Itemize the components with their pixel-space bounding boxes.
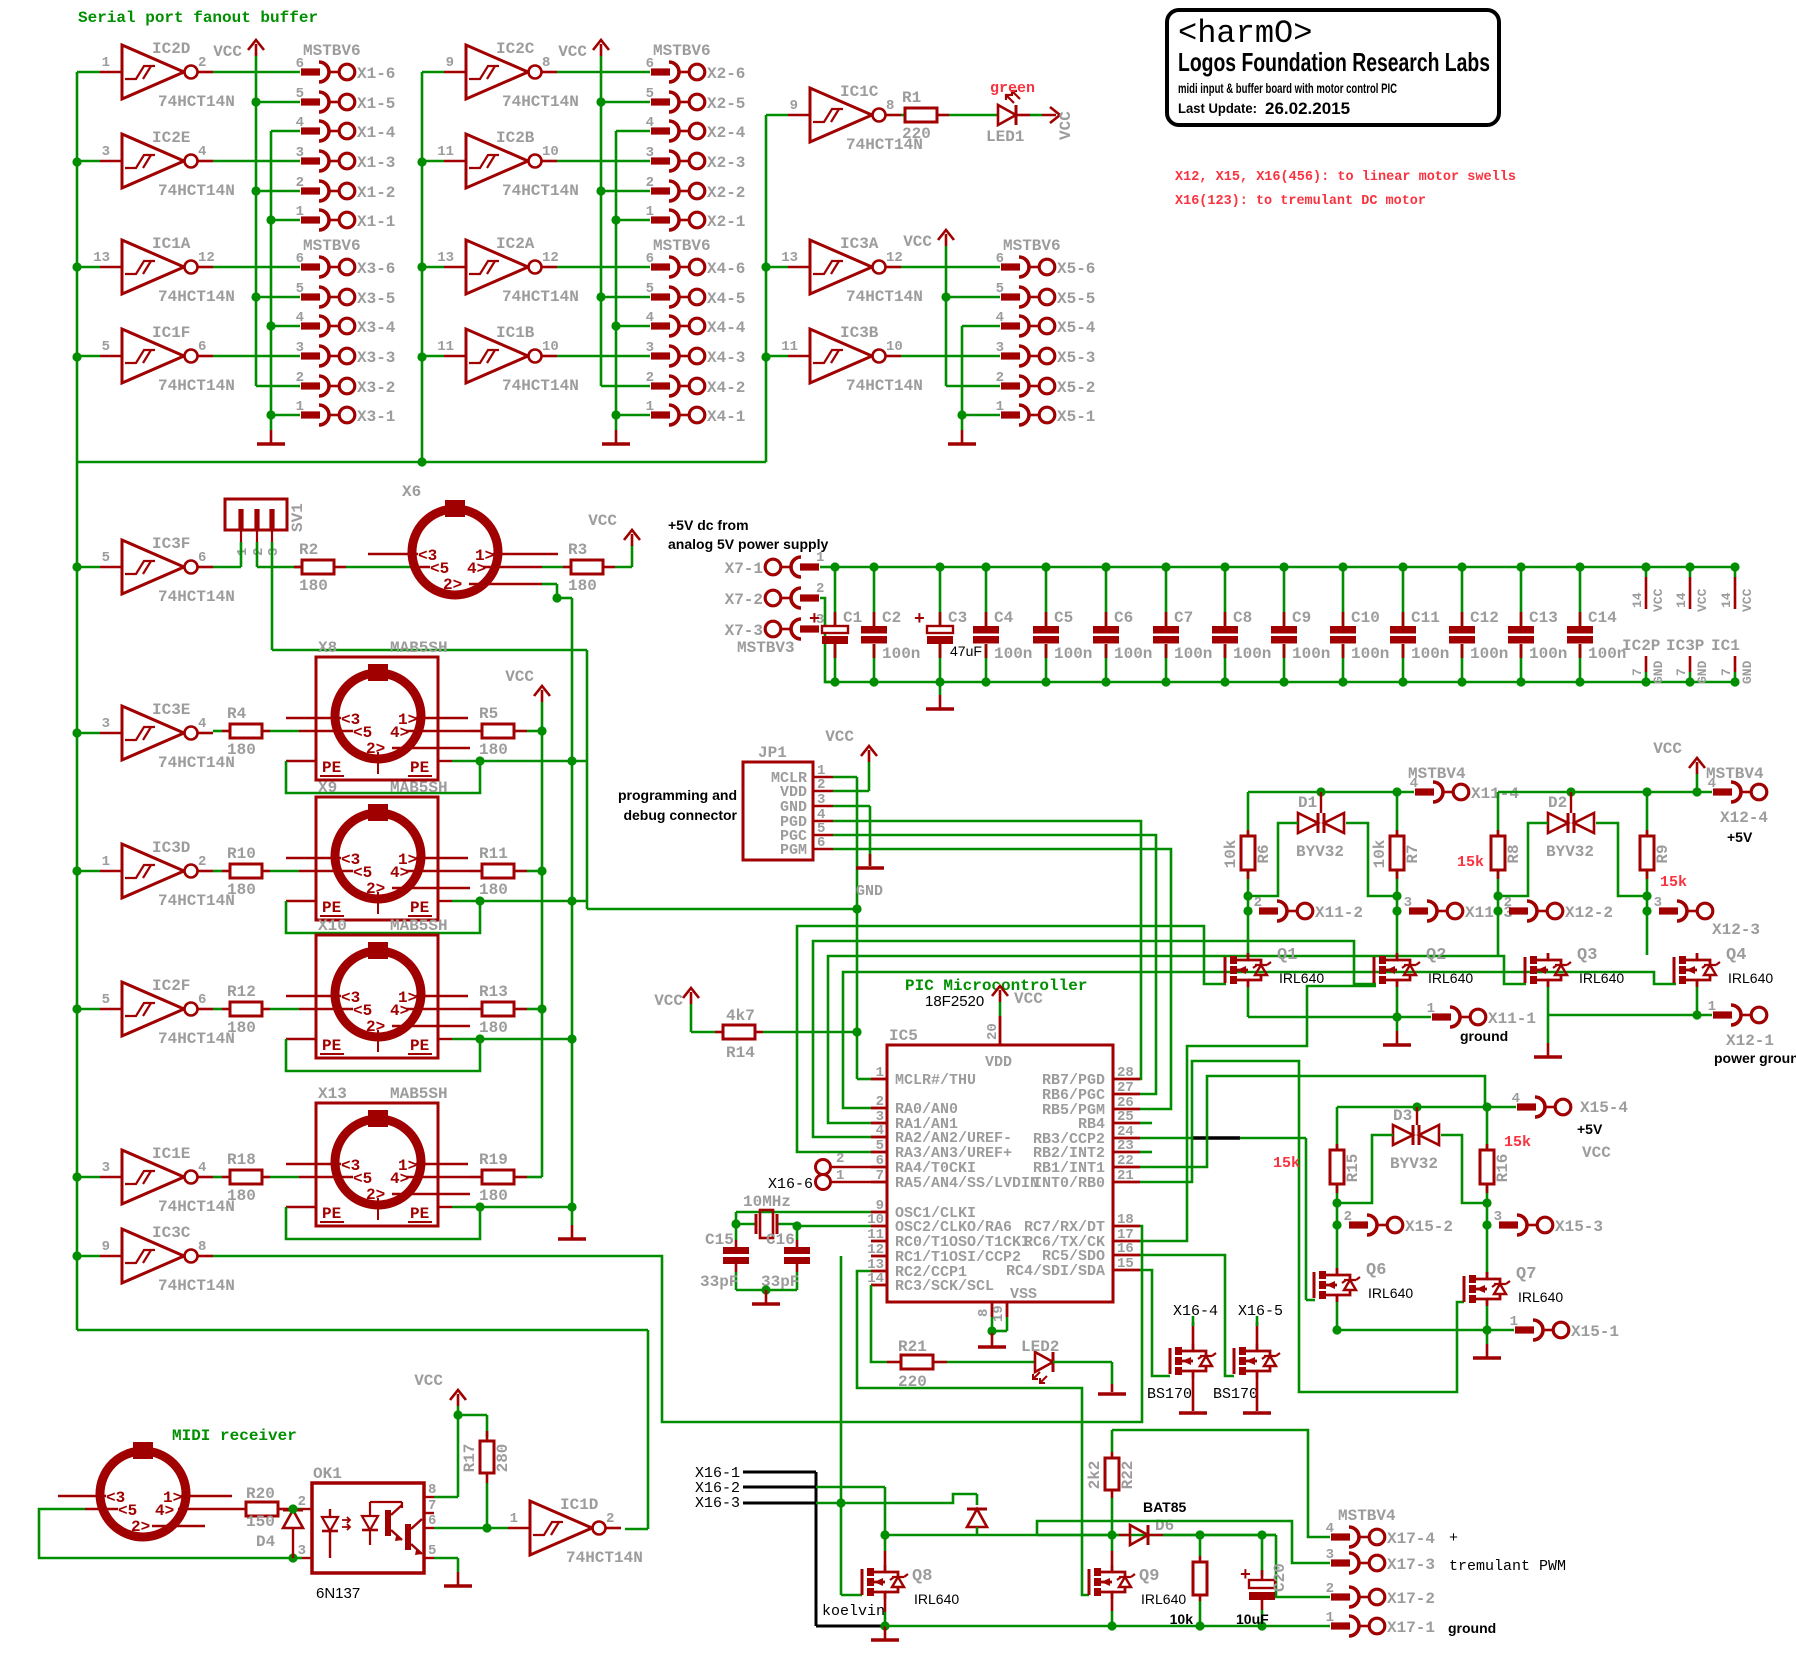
svg-text:IC1E: IC1E — [152, 1145, 190, 1163]
wire OSC — [731, 1212, 871, 1231]
wire PE loop X13 — [286, 1202, 572, 1239]
inverter IC3A — [766, 235, 923, 306]
resistor R1 220 — [902, 89, 949, 143]
svg-text:BAT85: BAT85 — [1143, 1499, 1187, 1515]
inverter IC3F — [77, 535, 235, 606]
svg-text:R20: R20 — [246, 1485, 275, 1503]
svg-text:10k: 10k — [1222, 839, 1240, 868]
transistor Q7 IRL640 — [1464, 1265, 1563, 1306]
resistor R13 180 — [470, 983, 542, 1037]
svg-text:C7: C7 — [1174, 609, 1193, 627]
svg-text:74HCT14N: 74HCT14N — [158, 93, 235, 111]
svg-text:R21: R21 — [898, 1338, 927, 1356]
resistor R5 180 — [470, 705, 542, 759]
svg-text:BS170: BS170 — [1147, 1386, 1192, 1403]
svg-text:180: 180 — [227, 741, 256, 759]
svg-text:1: 1 — [646, 204, 654, 220]
ground PE chain — [558, 1225, 586, 1239]
svg-text:6: 6 — [817, 835, 825, 851]
svg-text:100n: 100n — [1174, 645, 1212, 663]
wire RB2 stub — [1140, 1151, 1152, 1154]
capacitor C8 100n — [1212, 562, 1271, 686]
PIC microcontroller IC5 18F2520 — [867, 977, 1140, 1322]
svg-text:X5-2: X5-2 — [1057, 379, 1095, 397]
svg-text:+: + — [914, 610, 925, 630]
svg-text:power ground: power ground — [1714, 1050, 1796, 1066]
diode D1 BYV32 — [1296, 792, 1344, 861]
svg-text:14: 14 — [867, 1271, 884, 1287]
svg-text:7: 7 — [1630, 668, 1645, 676]
svg-text:R15: R15 — [1344, 1154, 1362, 1183]
svg-text:IC2F: IC2F — [152, 977, 190, 995]
svg-text:7: 7 — [1674, 668, 1689, 676]
svg-text:SV1: SV1 — [289, 503, 307, 532]
svg-text:1: 1 — [296, 204, 304, 220]
svg-text:PE: PE — [410, 759, 429, 777]
resistor R6 10k — [1222, 836, 1273, 870]
svg-text:2>: 2> — [366, 1018, 385, 1036]
svg-text:33pF: 33pF — [700, 1273, 738, 1291]
svg-text:6: 6 — [876, 1153, 884, 1169]
svg-text:14: 14 — [1719, 592, 1734, 608]
svg-text:X12-4: X12-4 — [1720, 809, 1768, 827]
wire X12 +5V rail — [1498, 787, 1712, 796]
svg-text:X11-1: X11-1 — [1488, 1010, 1536, 1028]
svg-text:3: 3 — [102, 716, 110, 732]
svg-text:74HCT14N: 74HCT14N — [502, 93, 579, 111]
svg-text:1: 1 — [235, 548, 251, 556]
wire RB3/CCP2 to Q6 gate — [1140, 1138, 1315, 1300]
svg-text:VCC: VCC — [558, 43, 587, 61]
svg-text:74HCT14N: 74HCT14N — [846, 288, 923, 306]
svg-text:D4: D4 — [256, 1533, 276, 1551]
transistor Q4 IRL640 — [1674, 946, 1773, 987]
svg-text:X4-2: X4-2 — [707, 379, 745, 397]
svg-text:IC3P: IC3P — [1666, 637, 1704, 655]
svg-text:6: 6 — [646, 56, 654, 72]
svg-text:IC1D: IC1D — [560, 1496, 598, 1514]
svg-text:GND: GND — [1740, 660, 1755, 684]
svg-text:IRL640: IRL640 — [1728, 970, 1773, 986]
svg-text:X4-4: X4-4 — [707, 319, 746, 337]
svg-text:14: 14 — [1674, 592, 1689, 608]
svg-text:2: 2 — [836, 1151, 844, 1167]
svg-text:10k: 10k — [1371, 839, 1389, 868]
wire INT0/RB0 to Q7 gate — [1140, 1061, 1464, 1392]
svg-text:2: 2 — [1504, 895, 1512, 911]
svg-text:X15-3: X15-3 — [1555, 1218, 1603, 1236]
svg-text:180: 180 — [227, 881, 256, 899]
svg-text:C13: C13 — [1529, 609, 1558, 627]
capacitor C1 — [809, 562, 862, 686]
inverter IC2C — [422, 40, 579, 111]
svg-text:6: 6 — [296, 251, 304, 267]
svg-text:X5-3: X5-3 — [1057, 349, 1095, 367]
svg-text:green: green — [990, 80, 1035, 97]
wire LED2 to ground — [1053, 1362, 1126, 1394]
svg-text:3: 3 — [817, 792, 825, 808]
svg-text:C11: C11 — [1411, 609, 1440, 627]
svg-text:15k: 15k — [1504, 1134, 1531, 1151]
svg-text:R6: R6 — [1255, 844, 1273, 863]
svg-text:74HCT14N: 74HCT14N — [158, 377, 235, 395]
svg-text:X2-2: X2-2 — [707, 184, 745, 202]
svg-text:100n: 100n — [1292, 645, 1330, 663]
svg-text:X3-2: X3-2 — [357, 379, 395, 397]
svg-text:MAB5SH: MAB5SH — [390, 1085, 448, 1103]
ground at PIC VSS — [978, 1317, 1007, 1347]
capacitor C10 100n — [1330, 562, 1389, 686]
wire RB4 stub — [1140, 1122, 1152, 1125]
svg-text:74HCT14N: 74HCT14N — [502, 182, 579, 200]
svg-text:100n: 100n — [1588, 645, 1626, 663]
LED LED1 — [986, 91, 1030, 146]
wire PE loop X10 — [286, 1034, 572, 1071]
svg-text:MSTBV4: MSTBV4 — [1408, 765, 1466, 783]
svg-text:4>: 4> — [390, 724, 409, 742]
svg-text:74HCT14N: 74HCT14N — [158, 588, 235, 606]
svg-text:4: 4 — [876, 1123, 884, 1139]
svg-text:22: 22 — [1117, 1153, 1134, 1169]
svg-text:180: 180 — [479, 741, 508, 759]
wire PE chain vertical — [567, 598, 576, 1225]
svg-text:IC1B: IC1B — [496, 324, 535, 342]
connector X1 (MSTBV6) — [213, 42, 396, 231]
svg-text:3: 3 — [1404, 895, 1412, 911]
wire X7-1 to top rail — [820, 566, 835, 569]
svg-text:IC3B: IC3B — [840, 324, 879, 342]
capacitor C7 100n — [1153, 562, 1212, 686]
wire IC1C out — [901, 114, 905, 117]
svg-text:1: 1 — [816, 550, 824, 566]
svg-text:X15-4: X15-4 — [1580, 1099, 1628, 1117]
svg-text:X5-6: X5-6 — [1057, 260, 1095, 278]
svg-text:X5-5: X5-5 — [1057, 290, 1095, 308]
wire MCLR net vertical x587 — [587, 650, 857, 909]
svg-text:4: 4 — [646, 115, 654, 131]
connector pin X15-2 — [1344, 1209, 1453, 1236]
inverter IC2D — [77, 40, 235, 111]
capacitor C6 100n — [1093, 562, 1152, 686]
DIN connector X6 — [368, 483, 558, 595]
ground at Q2 — [1383, 1017, 1411, 1045]
resistor R4 180 — [213, 705, 299, 759]
wire JP1 MCLR — [833, 776, 857, 779]
svg-text:4>: 4> — [390, 1170, 409, 1188]
svg-text:28: 28 — [1117, 1065, 1134, 1081]
VCC at X12 — [1653, 740, 1705, 792]
connector pin X12-1 — [1708, 999, 1796, 1066]
svg-text:4k7: 4k7 — [726, 1007, 755, 1025]
svg-text:6: 6 — [198, 550, 206, 566]
VCC at LED1 — [1030, 107, 1075, 140]
svg-text:3: 3 — [296, 340, 304, 356]
svg-text:Last Update:: Last Update: — [1178, 100, 1257, 116]
svg-text:C2: C2 — [882, 609, 901, 627]
svg-text:2: 2 — [606, 1511, 614, 1527]
svg-text:R10: R10 — [227, 845, 256, 863]
svg-text:IC1C: IC1C — [840, 83, 879, 101]
svg-text:2: 2 — [646, 370, 654, 386]
svg-text:5: 5 — [102, 992, 110, 1008]
svg-text:X8: X8 — [318, 639, 337, 657]
svg-text:74HCT14N: 74HCT14N — [502, 288, 579, 306]
red note green — [990, 80, 1035, 97]
svg-text:IRL640: IRL640 — [1518, 1289, 1563, 1305]
svg-text:R11: R11 — [479, 845, 508, 863]
svg-text:1: 1 — [876, 1065, 884, 1081]
svg-text:MSTBV6: MSTBV6 — [653, 42, 711, 60]
inverter IC1F — [77, 324, 235, 395]
svg-text:PE: PE — [410, 1037, 429, 1055]
svg-text:220: 220 — [902, 125, 931, 143]
svg-text:GND: GND — [856, 883, 883, 900]
svg-text:IC3D: IC3D — [152, 839, 190, 857]
svg-text:C10: C10 — [1351, 609, 1380, 627]
svg-text:VCC: VCC — [1582, 1144, 1611, 1162]
wire PE loop X9 — [286, 896, 586, 933]
svg-text:4: 4 — [296, 115, 304, 131]
svg-text:IC5: IC5 — [889, 1027, 918, 1045]
inverter IC1D — [508, 1496, 643, 1567]
svg-text:IC3E: IC3E — [152, 701, 190, 719]
svg-text:11: 11 — [437, 144, 454, 160]
svg-text:+5V: +5V — [1727, 829, 1753, 845]
svg-text:GND: GND — [1695, 660, 1710, 684]
wire RC4/SDI to X16-4 — [1140, 1270, 1170, 1376]
svg-text:IC3A: IC3A — [840, 235, 879, 253]
svg-text:2>: 2> — [366, 1186, 385, 1204]
svg-text:MAB5SH: MAB5SH — [390, 639, 448, 657]
wire X16-1 (black) — [743, 1472, 885, 1626]
svg-text:5: 5 — [102, 550, 110, 566]
svg-text:74HCT14N: 74HCT14N — [158, 182, 235, 200]
svg-text:13: 13 — [781, 250, 798, 266]
svg-text:10: 10 — [886, 339, 903, 355]
svg-text:4>: 4> — [390, 1002, 409, 1020]
svg-text:5: 5 — [646, 86, 654, 102]
svg-text:2: 2 — [1344, 1209, 1352, 1225]
svg-text:MSTBV6: MSTBV6 — [303, 237, 361, 255]
svg-text:2>: 2> — [443, 576, 462, 594]
wire JP1 VDD to VCC — [825, 728, 877, 791]
resistor R19 180 — [470, 1151, 542, 1205]
svg-text:VSS: VSS — [1010, 1286, 1037, 1303]
svg-text:X9: X9 — [318, 779, 337, 797]
svg-text:D1: D1 — [1298, 794, 1317, 812]
wire RA0 bundle — [843, 972, 1676, 1108]
svg-text:C20: C20 — [1271, 1563, 1289, 1592]
svg-text:D2: D2 — [1548, 794, 1567, 812]
svg-text:R14: R14 — [726, 1044, 755, 1062]
svg-text:180: 180 — [227, 1187, 256, 1205]
svg-text:9: 9 — [102, 1239, 110, 1255]
resistor R3 180 — [542, 541, 615, 595]
svg-text:X16-3: X16-3 — [695, 1495, 740, 1512]
svg-text:VCC: VCC — [825, 728, 854, 746]
svg-text:X1-2: X1-2 — [357, 184, 395, 202]
svg-text:X3-4: X3-4 — [357, 319, 396, 337]
ground rail for X5 — [948, 326, 976, 444]
svg-text:MIDI receiver: MIDI receiver — [172, 1427, 297, 1445]
svg-text:PGM: PGM — [780, 842, 807, 859]
svg-text:koelvin: koelvin — [822, 1603, 885, 1620]
wire D1 left — [1248, 823, 1298, 896]
svg-text:LED1: LED1 — [986, 128, 1024, 146]
svg-text:10: 10 — [542, 144, 559, 160]
svg-text:X13: X13 — [318, 1085, 347, 1103]
wire RC2/CCP1 to Q9 gate — [857, 1271, 1089, 1595]
svg-text:6N137: 6N137 — [316, 1585, 360, 1602]
svg-text:100n: 100n — [1233, 645, 1271, 663]
svg-text:X2-5: X2-5 — [707, 95, 745, 113]
svg-text:4: 4 — [646, 310, 654, 326]
svg-text:8: 8 — [198, 1239, 206, 1255]
connector pin X11-3 — [1404, 895, 1513, 922]
DIN connector X9 (MAB5SH) — [286, 779, 470, 920]
svg-text:VCC: VCC — [1740, 588, 1755, 612]
svg-text:100n: 100n — [1529, 645, 1567, 663]
svg-text:R3: R3 — [568, 541, 587, 559]
connector X2 (MSTBV6) — [557, 42, 746, 231]
svg-text:4: 4 — [996, 310, 1004, 326]
transistor Q1 IRL640 — [1225, 946, 1324, 987]
VCC at R3 — [588, 512, 640, 567]
svg-text:X2-4: X2-4 — [707, 124, 746, 142]
svg-text:15k: 15k — [1457, 854, 1484, 871]
svg-text:74HCT14N: 74HCT14N — [846, 377, 923, 395]
connector X4 (MSTBV6) — [557, 237, 746, 426]
ground at Q3 — [1534, 1015, 1562, 1057]
svg-text:3: 3 — [1494, 1209, 1502, 1225]
svg-text:12: 12 — [867, 1242, 884, 1258]
svg-text:C3: C3 — [948, 609, 967, 627]
svg-text:X2-1: X2-1 — [707, 213, 745, 231]
svg-text:X1-5: X1-5 — [357, 95, 395, 113]
svg-text:180: 180 — [568, 577, 597, 595]
svg-text:Serial port fanout buffer: Serial port fanout buffer — [78, 9, 318, 27]
svg-text:4>: 4> — [390, 864, 409, 882]
svg-text:Logos Foundation Research Labs: Logos Foundation Research Labs — [1178, 47, 1490, 77]
red note: linear motor swells — [1175, 169, 1516, 185]
svg-text:VCC: VCC — [903, 233, 932, 251]
resistor R12 180 — [213, 983, 299, 1037]
svg-text:R13: R13 — [479, 983, 508, 1001]
svg-text:6: 6 — [198, 339, 206, 355]
svg-text:5: 5 — [296, 281, 304, 297]
DIN connector MIDI receiver — [58, 1442, 232, 1537]
svg-text:X7-2: X7-2 — [725, 591, 763, 609]
svg-text:3: 3 — [102, 1160, 110, 1176]
svg-text:2: 2 — [1254, 895, 1262, 911]
inverter IC2A — [422, 235, 579, 306]
svg-text:10k: 10k — [1170, 1611, 1194, 1627]
svg-text:18: 18 — [1117, 1212, 1134, 1228]
svg-text:11: 11 — [437, 339, 454, 355]
svg-text:3: 3 — [996, 340, 1004, 356]
resistor R11 180 — [470, 845, 542, 899]
connector pin X11-1 — [1427, 1001, 1536, 1044]
ground rail for X2/X4 — [602, 131, 630, 444]
transistor Q9 IRL640 — [1089, 1565, 1186, 1607]
svg-text:X5-1: X5-1 — [1057, 408, 1095, 426]
svg-text:X12-2: X12-2 — [1565, 904, 1613, 922]
wire R1 to LED1 — [949, 114, 998, 117]
svg-text:5: 5 — [102, 339, 110, 355]
svg-text:analog 5V power supply: analog 5V power supply — [668, 536, 828, 552]
svg-text:3: 3 — [296, 145, 304, 161]
svg-text:X16-4: X16-4 — [1173, 1303, 1218, 1320]
svg-text:R9: R9 — [1654, 844, 1672, 863]
svg-text:X11-2: X11-2 — [1315, 904, 1363, 922]
svg-text:8: 8 — [886, 98, 894, 114]
svg-text:X1-6: X1-6 — [357, 65, 395, 83]
svg-text:ground: ground — [1460, 1028, 1508, 1044]
wire R6 column — [1243, 792, 1252, 955]
svg-text:R4: R4 — [227, 705, 247, 723]
svg-text:X11-4: X11-4 — [1471, 785, 1519, 803]
capacitor C3 47uF — [914, 562, 982, 686]
svg-text:IC2E: IC2E — [152, 129, 190, 147]
labels X16-1/2/3 — [695, 1465, 740, 1512]
svg-text:6: 6 — [428, 1513, 436, 1529]
inverter IC2E — [77, 129, 235, 200]
wire SV1-2 down — [256, 542, 259, 567]
transistor Q8 IRL640 — [862, 1565, 959, 1607]
svg-text:74HCT14N: 74HCT14N — [158, 1198, 235, 1216]
svg-text:X4-1: X4-1 — [707, 408, 745, 426]
svg-text:2>: 2> — [131, 1518, 150, 1536]
wire RC3 to R21 — [871, 1285, 887, 1362]
wire R16 column — [1482, 1107, 1491, 1274]
VCC rail for X1/X3 — [213, 40, 264, 386]
connector X5 (MSTBV6) — [901, 237, 1096, 426]
svg-text:180: 180 — [479, 881, 508, 899]
svg-text:MSTBV6: MSTBV6 — [1003, 237, 1061, 255]
resistor R15 15k — [1273, 1150, 1362, 1184]
svg-text:R1: R1 — [902, 89, 921, 107]
svg-text:X16-6: X16-6 — [768, 1176, 813, 1193]
wire PGD — [833, 821, 1141, 1079]
svg-text:Q9: Q9 — [1139, 1567, 1159, 1586]
svg-text:R2: R2 — [299, 541, 318, 559]
svg-text:R5: R5 — [479, 705, 498, 723]
wire SV1-2 to R2 — [257, 566, 302, 569]
inverter IC3B — [766, 324, 923, 395]
svg-text:180: 180 — [479, 1187, 508, 1205]
svg-text:6: 6 — [198, 992, 206, 1008]
svg-text:OK1: OK1 — [313, 1465, 342, 1483]
svg-text:R16: R16 — [1494, 1154, 1512, 1183]
svg-text:+: + — [809, 610, 820, 630]
capacitor C20 10uF — [1236, 1535, 1289, 1631]
inverter IC1B — [422, 324, 579, 395]
wire D3 right — [1441, 1135, 1487, 1203]
capacitor C15 33pF — [700, 1224, 749, 1291]
svg-text:6: 6 — [996, 251, 1004, 267]
wire OK1 pin5 to ground — [434, 1558, 472, 1586]
svg-text:2: 2 — [996, 370, 1004, 386]
wire RA2 bundle — [813, 941, 1376, 1137]
svg-text:PE: PE — [410, 899, 429, 917]
svg-text:IC2B: IC2B — [496, 129, 535, 147]
resistor R8 15k — [1457, 836, 1523, 871]
svg-text:15: 15 — [1117, 1256, 1134, 1272]
connector pin X15-1 — [1510, 1314, 1619, 1341]
svg-text:74HCT14N: 74HCT14N — [158, 754, 235, 772]
capacitor C13 100n — [1508, 562, 1567, 686]
svg-text:X4-3: X4-3 — [707, 349, 745, 367]
